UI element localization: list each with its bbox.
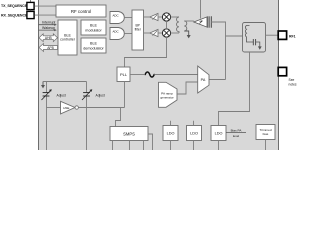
svg-text:Adjust: Adjust — [57, 93, 66, 97]
wire L1 to C1 — [247, 37, 254, 42]
sine symbol — [145, 72, 154, 77]
block PA ramp generator — [159, 82, 178, 107]
wire HSE line to SMPS — [116, 108, 121, 127]
wire ADC2 to BP filter — [124, 33, 132, 35]
wire SMPS output 1 — [112, 141, 114, 151]
svg-text:RF control: RF control — [71, 9, 91, 14]
svg-text:LDO: LDO — [167, 132, 175, 136]
pin See-notes pad — [278, 67, 286, 75]
wire SMPS output 2 — [129, 141, 131, 151]
wire mixer1 to balun — [171, 16, 179, 18]
wire RX_SEQUENCE to RF control — [35, 14, 57, 16]
wire BP filter to VGA1 — [144, 16, 150, 18]
svg-text:APB: APB — [47, 46, 54, 50]
wire LDO1 top stub — [170, 121, 172, 126]
block SMPS — [110, 127, 148, 141]
wire SMPS output 3 — [143, 141, 145, 151]
wire matching network to RF1 — [266, 34, 279, 36]
svg-text:ADC: ADC — [112, 29, 118, 33]
svg-text:ADC: ADC — [112, 13, 118, 17]
wire between mixers — [166, 21, 168, 29]
wire HSE output to PLL — [78, 107, 124, 109]
wire XO pin1 vertical — [46, 82, 48, 93]
wire LDO2 bottom stub — [193, 141, 195, 151]
svg-text:bias: bias — [263, 132, 269, 136]
pin RX_SEQUENCE pad — [27, 10, 34, 19]
inductor L1 in matching network — [245, 26, 249, 37]
wire SMPS right output — [148, 134, 153, 150]
trimmer capacitor CT2 — [82, 89, 92, 100]
trimmer capacitor CT1 — [42, 89, 52, 100]
amplifier PA — [198, 66, 209, 93]
block BLE controller — [58, 20, 77, 55]
svg-text:filter: filter — [135, 27, 142, 31]
svg-text:generator: generator — [160, 95, 173, 99]
wire LDO1 bottom stub — [170, 141, 172, 151]
ADC I channel — [110, 12, 124, 24]
svg-text:Interrupt: Interrupt — [42, 21, 55, 25]
amplifier LNA — [194, 16, 212, 27]
block Trimmed bias — [256, 125, 275, 140]
wire XO pin1 to HSE input — [47, 107, 61, 109]
svg-text:notes: notes — [289, 82, 297, 86]
svg-text:PLL: PLL — [120, 72, 128, 77]
mixer M1 — [162, 13, 170, 21]
wire mixer2 to balun — [171, 32, 179, 34]
svg-text:PA: PA — [201, 78, 206, 82]
chip body U1 — [39, 0, 279, 152]
wire Trimmed bias bottom stub — [265, 140, 267, 151]
wire ADC1 to BP filter — [124, 17, 132, 19]
mixer M2 — [162, 29, 170, 37]
wire LNA gain control from top — [200, 0, 202, 19]
wire LDO2 top stub — [193, 121, 195, 126]
signal Wakeup — [39, 26, 57, 31]
amplifier VGA2 — [150, 29, 158, 36]
wire sine to PA input — [154, 74, 197, 76]
capacitor C1 in matching network — [253, 39, 255, 45]
wire LDO3 bottom stub — [218, 141, 220, 151]
net Bias PA level — [226, 128, 246, 138]
wire BP filter to VGA2 — [144, 32, 150, 34]
svg-text:demodulator: demodulator — [83, 46, 104, 50]
pin TX_SEQUENCE pad — [27, 0, 34, 10]
svg-text:SMPS: SMPS — [123, 132, 135, 137]
oscillator HSE — [61, 101, 79, 114]
signal Interrupt — [39, 21, 57, 26]
svg-text:RX_SEQUENCE: RX_SEQUENCE — [1, 13, 28, 17]
svg-text:controller: controller — [60, 38, 76, 42]
block LDO1 — [163, 126, 178, 141]
wire PLL bottom to HSE line — [124, 82, 126, 108]
ground arrow in matching network — [256, 42, 262, 50]
wire LNA input node — [212, 22, 226, 80]
block PLL — [117, 67, 130, 82]
svg-text:AHB: AHB — [45, 36, 53, 40]
block BLE modulator — [81, 20, 106, 35]
wire PA ramp generator to PA — [177, 82, 198, 94]
bus AHB arrow — [39, 34, 58, 42]
wire node to matching network — [226, 35, 243, 37]
matching network box — [243, 23, 266, 53]
wire balun to LNA — [184, 20, 194, 22]
block LDO2 — [187, 126, 202, 141]
svg-text:HSE: HSE — [63, 106, 69, 110]
pin RF1 pad — [278, 31, 286, 39]
amplifier VGA1 — [150, 13, 158, 20]
wire XO top rail — [43, 81, 87, 83]
block BLE demodulator — [81, 38, 106, 53]
wire VGA1 to mixer1 — [158, 16, 162, 18]
block LDO3 — [211, 126, 226, 141]
svg-text:LDO: LDO — [215, 132, 223, 136]
svg-text:BLE: BLE — [90, 42, 98, 46]
svg-text:BLE: BLE — [90, 24, 98, 28]
svg-text:level: level — [233, 134, 240, 138]
svg-text:modulator: modulator — [85, 28, 102, 32]
svg-text:Wakeup: Wakeup — [42, 26, 55, 30]
wire matching network to LDO3 rail — [219, 52, 250, 126]
svg-text:RF1: RF1 — [289, 34, 296, 38]
wire PA output to node — [209, 79, 226, 81]
ground arrow XO rail — [41, 82, 45, 89]
bus APB arrow — [39, 44, 58, 52]
ADC Q channel — [110, 28, 124, 40]
pin See-notes label — [289, 78, 297, 86]
balun secondary winding — [184, 21, 187, 31]
ground arrow at balun — [184, 31, 190, 38]
block BP filter — [132, 10, 144, 50]
svg-text:TX_SEQUENCE: TX_SEQUENCE — [1, 4, 28, 8]
wire LO from PLL to mixers — [125, 37, 167, 67]
balun primary winding — [177, 17, 179, 33]
block RF control — [56, 5, 106, 17]
wire XO pin2 vertical — [86, 82, 88, 93]
wire VGA2 to mixer2 — [158, 32, 162, 34]
svg-text:Bias PA: Bias PA — [231, 128, 243, 132]
wire PLL output to sine — [130, 74, 144, 76]
svg-text:Adjust: Adjust — [96, 93, 105, 97]
wire TX_SEQUENCE to RF control — [35, 5, 57, 7]
svg-text:LDO: LDO — [190, 132, 198, 136]
